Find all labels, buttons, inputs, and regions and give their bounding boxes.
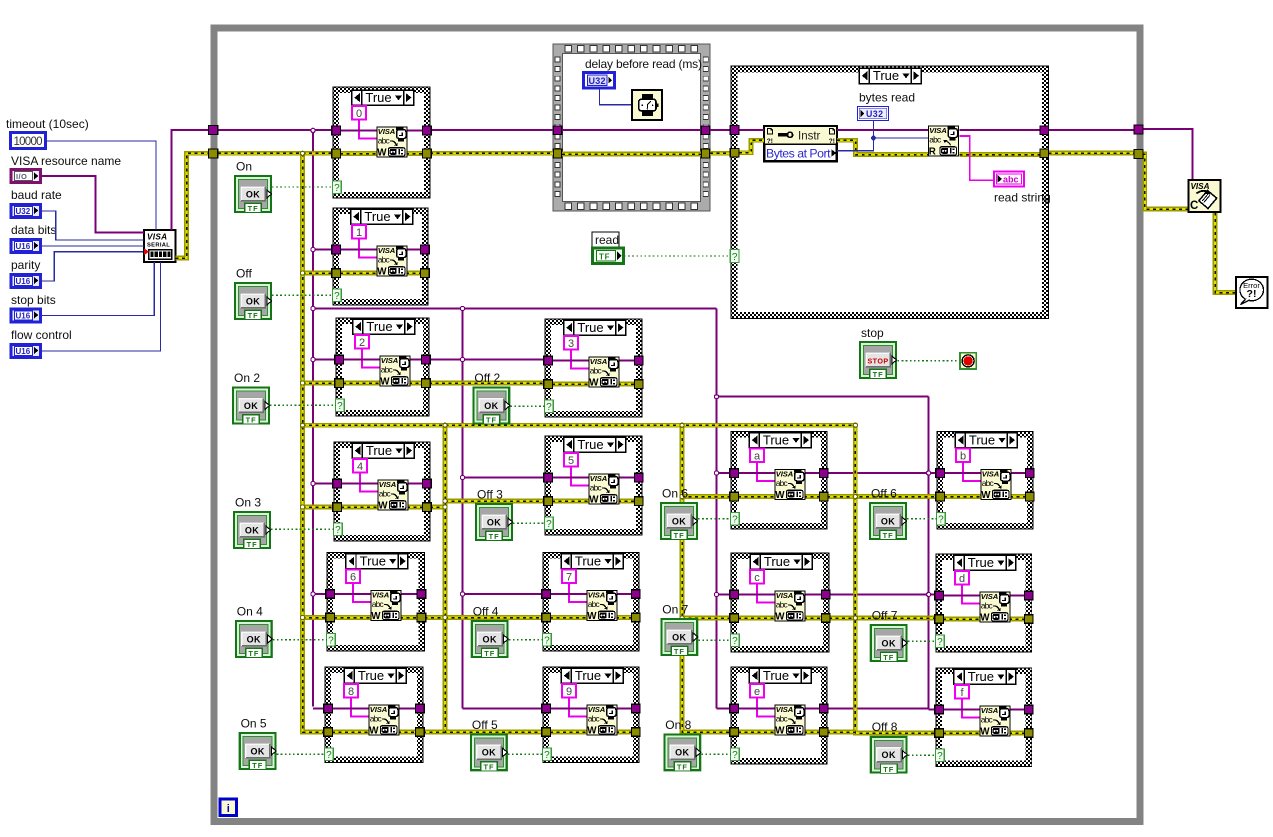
VISA Write icon (case "3") [589, 357, 619, 389]
VISA Configure Serial Port node [144, 230, 176, 262]
wire: VISA into property node [739, 129, 764, 131]
wire: error into VISA Write (case "a") [738, 494, 776, 499]
case selector label "True" [346, 554, 408, 569]
tunnel: case "e" left VISA [730, 704, 739, 713]
junction: VISA wire [460, 306, 464, 310]
junction: VISA wire [460, 357, 464, 361]
VISA Write icon (case "8") [369, 705, 399, 737]
tunnel: case "8" left error [324, 728, 333, 737]
case selector terminal ? ("0") [333, 181, 342, 194]
tunnel: loop left VISA [209, 126, 218, 135]
wire: On 7 to case selector [698, 639, 731, 641]
wire: error main through sequence [562, 152, 701, 157]
wire: constant "7" to VISA Write [569, 584, 587, 603]
wire: Off 6 to case selector [907, 518, 937, 520]
wire: VISA through case "1" [340, 249, 421, 251]
junction: VISA wire [460, 475, 464, 479]
svg-text:On 4: On 4 [237, 605, 263, 619]
case selector terminal ? ("4") [334, 523, 343, 536]
boolean button On 6 [661, 503, 698, 540]
tunnel: read case left error [730, 149, 739, 158]
tunnel: case "1" right error [421, 269, 430, 278]
junction: error wire [443, 423, 447, 427]
svg-text:On 5: On 5 [241, 717, 267, 731]
wire: error branch to case 7 [445, 615, 543, 620]
wire: VISA branch to case c [717, 594, 732, 596]
wire: VISA main loop border to VISA Close [1144, 129, 1193, 180]
svg-text:6: 6 [350, 571, 356, 583]
wire: constant "5" to VISA Write [571, 467, 589, 486]
string constant "a" [750, 449, 764, 463]
svg-text:C: C [1190, 200, 1198, 212]
junction: VISA wire [311, 306, 315, 310]
svg-text:U16: U16 [16, 347, 31, 356]
indicator terminal: bytes read U32 [858, 107, 889, 121]
svg-text:?!: ?! [767, 138, 773, 145]
tunnel: case "b" right error [1026, 492, 1035, 501]
case structure "4" (col1 row4) [334, 442, 430, 541]
VISA Write icon (case "d") [980, 592, 1010, 624]
svg-text:?: ? [337, 401, 343, 412]
svg-text:?: ? [937, 637, 943, 648]
control terminal: parity U16 [11, 275, 41, 288]
case selector terminal ? ("1") [333, 289, 342, 302]
svg-text:?: ? [938, 515, 944, 526]
wire: error into VISA Write (case "3") [552, 382, 590, 387]
svg-text:True: True [360, 554, 386, 569]
svg-text:?: ? [732, 252, 738, 263]
wire: error out of VISA Write (case "d") [1009, 617, 1025, 622]
while loop condition terminal [960, 353, 976, 369]
case structure "True" (read case) [731, 66, 1049, 319]
svg-text:On 2: On 2 [234, 371, 260, 385]
tunnel: case "2" left VISA [335, 355, 344, 364]
case structure "9" (col2 row6) [543, 667, 639, 763]
svg-text:VISA: VISA [147, 233, 167, 242]
wire: VISA through case "8" [332, 708, 416, 710]
string constant "5" [564, 453, 578, 467]
tunnel: case "6" left VISA [326, 590, 335, 599]
tunnel: case "4" right VISA [423, 479, 432, 488]
wire: error case a out to case b [827, 494, 937, 499]
wire: error out of VISA Write (case "a") [804, 494, 820, 499]
VISA Write icon (case "a") [775, 470, 805, 502]
wire: VISA branch to case 4 [313, 483, 334, 485]
tunnel: case "d" left VISA [935, 591, 944, 600]
case structure "8" (col1 row6) [325, 667, 423, 763]
svg-text:abc: abc [1003, 175, 1019, 185]
wire: VISA branch to case 8 [313, 708, 325, 710]
boolean terminal: read TF [593, 248, 624, 264]
case selector label "True" [561, 554, 623, 569]
wire: timeout to VISA serial (top) [46, 141, 156, 230]
svg-text:0: 0 [356, 108, 362, 120]
wire: error case 8 out to col2 vertical [423, 730, 445, 735]
VISA Write icon (case "0") [377, 127, 407, 159]
wire: VISA cross branch to col4 [717, 396, 929, 398]
wire: VISA through case "a" [738, 472, 820, 474]
svg-text:?: ? [544, 750, 550, 761]
wire: constant "8" to VISA Write [351, 698, 369, 717]
control terminal: baud rate U32 [11, 205, 41, 218]
svg-text:U32: U32 [866, 109, 883, 119]
wire: error case e out to col4 vertical [827, 730, 855, 735]
tunnel: case "1" left VISA [332, 245, 341, 254]
tunnel: case "a" right error [820, 492, 829, 501]
wire: read string data [960, 136, 995, 180]
wire: constant "6" to VISA Write [353, 584, 371, 603]
boolean button Off 5 [471, 735, 508, 772]
wire: error into VISA Write (case "d") [943, 617, 981, 622]
wire: VISA case 2 out to case 3 [429, 359, 545, 361]
wire: constant "c" to VISA Write [757, 584, 775, 603]
wire: error out of VISA Write (case "f") [1009, 731, 1025, 736]
wire: error out of VISA Write (case "c") [804, 616, 822, 621]
wire: error out of VISA Write (case "3") [618, 382, 635, 387]
boolean button On 8 [664, 735, 701, 772]
svg-text:5: 5 [568, 455, 574, 467]
svg-text:U16: U16 [16, 242, 31, 251]
svg-text:?: ? [334, 183, 340, 194]
tunnel: case "f" right error [1024, 729, 1033, 738]
read case selector terminal ? [730, 250, 739, 264]
case selector terminal ? ("b") [937, 513, 946, 526]
tunnel: loop right VISA [1134, 125, 1143, 134]
junction: error wire [300, 423, 304, 427]
boolean button On 4 [236, 621, 272, 658]
wire: On 8 to case selector [701, 753, 731, 755]
case structure "7" (col2 row5) [543, 553, 639, 652]
tunnel: case "4" left error [333, 503, 342, 512]
junction: error wire [443, 615, 447, 619]
string constant "9" [562, 684, 576, 698]
svg-text:On 7: On 7 [662, 603, 688, 617]
string constant "6" [346, 570, 360, 584]
svg-text:Off 8: Off 8 [872, 720, 898, 734]
junction: VISA wire [927, 471, 931, 475]
tunnel: case "9" right VISA [632, 704, 641, 713]
case selector terminal ? ("c") [731, 634, 740, 647]
svg-text:7: 7 [566, 571, 572, 583]
boolean button Off 7 [871, 625, 908, 662]
wire: constant "b" to VISA Write [963, 463, 981, 482]
tunnel: case "e" right VISA [820, 704, 829, 713]
wire: error VISA Read to tunnel [960, 152, 1041, 157]
wire: On 5 to case selector [277, 753, 325, 755]
tunnel: case "c" right error [822, 614, 831, 623]
wire: constant "0" to VISA Write [359, 120, 377, 139]
wire: constant "1" to VISA Write [359, 239, 377, 258]
wire: error branch to case c [682, 616, 731, 621]
wire: VISA branch to case 2 [313, 359, 336, 361]
VISA Write icon (case "e") [775, 705, 805, 737]
wire: error into VISA Write (case "e") [738, 730, 776, 735]
svg-text:?: ? [544, 636, 550, 647]
svg-text:d: d [959, 573, 965, 585]
svg-text:True: True [968, 669, 994, 684]
svg-text:Off 4: Off 4 [473, 605, 499, 619]
wire: data bits to VISA serial [41, 245, 145, 247]
junction: VISA wire [311, 357, 315, 361]
string constant "2" [355, 335, 369, 349]
boolean button Off 6 [870, 503, 907, 540]
case selector label "True" [561, 668, 623, 683]
svg-text:Off: Off [236, 267, 252, 281]
wire: error into VISA Write (case "6") [334, 615, 372, 620]
wire: VISA through case "7" [550, 593, 632, 595]
svg-text:VISA: VISA [1191, 182, 1210, 191]
svg-text:True: True [366, 319, 392, 334]
tunnel: case "d" left error [935, 615, 944, 624]
svg-text:True: True [364, 209, 390, 224]
case selector terminal ? ("8") [325, 748, 334, 761]
svg-text:U16: U16 [16, 277, 31, 286]
svg-text:True: True [577, 320, 603, 335]
VISA Write icon (case "c") [775, 591, 805, 623]
junction: VISA wire [714, 592, 718, 596]
tunnel: case "d" right VISA [1024, 591, 1033, 600]
tunnel: case "b" right VISA [1026, 469, 1035, 478]
wire: error main read case to loop border [1049, 151, 1135, 156]
case selector label "True" [750, 554, 812, 569]
junction: error wire [300, 381, 304, 385]
wire: error into VISA Write (case "2") [343, 381, 381, 386]
svg-text:4: 4 [357, 461, 363, 473]
wire: error case 4 out to col2 vertical [430, 505, 445, 510]
error out icon [1236, 277, 1268, 308]
string constant "d" [955, 571, 969, 585]
wire: error case c out to case d [829, 616, 936, 621]
case structure "f" (col4 row6) [936, 668, 1032, 767]
string constant "0" [352, 106, 366, 120]
wire: error branch to case 5 [445, 499, 545, 504]
string constant "f" [955, 685, 969, 699]
wire: flow control to VISA serial (bottom) [41, 262, 161, 351]
svg-text:a: a [754, 450, 761, 462]
wire: VISA through case "3" [552, 360, 635, 362]
svg-text:Instr: Instr [798, 131, 821, 143]
wire: error property node to VISA Read [837, 140, 928, 154]
svg-text:?: ? [732, 636, 738, 647]
svg-text:timeout (10sec): timeout (10sec) [6, 117, 89, 131]
case selector terminal ? ("6") [327, 634, 336, 647]
svg-text:3: 3 [568, 338, 574, 350]
case structure "6" (col1 row5) [327, 553, 425, 652]
tunnel: read case right VISA [1040, 126, 1049, 135]
wire: constant "a" to VISA Write [757, 463, 775, 482]
junction: error wire [443, 505, 447, 509]
wire: error vertical col4 [855, 425, 936, 733]
wire: VISA through case "c" [738, 594, 822, 596]
wire: VISA property node to VISA Read [837, 129, 928, 131]
svg-text:True: True [358, 668, 384, 683]
boolean button On 5 [240, 733, 277, 770]
tunnel: case "a" left error [730, 492, 739, 501]
tunnel: case "5" right error [635, 497, 644, 506]
junction: VISA wire [311, 481, 315, 485]
wire: error branch to case 2 [303, 381, 337, 386]
svg-text:Off 7: Off 7 [872, 609, 898, 623]
svg-text:True: True [575, 554, 601, 569]
tunnel: case "3" left error [544, 380, 553, 389]
case selector label "True" [352, 443, 414, 458]
svg-text:?!: ?! [1247, 288, 1257, 300]
tunnel: case "f" right VISA [1024, 705, 1033, 714]
control terminal: data bits U16 [11, 240, 41, 253]
svg-text:?: ? [546, 402, 552, 413]
wire: error main sequence to read case [710, 151, 731, 156]
svg-text:?!: ?! [829, 138, 835, 145]
wire: error into VISA Write (case "5") [552, 499, 590, 504]
wire: VISA through case "b" [944, 472, 1026, 474]
case selector terminal ? ("f") [936, 749, 945, 762]
tunnel: case "0" left error [332, 149, 341, 158]
tunnel: case "6" right VISA [417, 590, 426, 599]
tunnel: case "9" left VISA [542, 704, 551, 713]
case selector terminal ? ("5") [545, 517, 554, 530]
VISA resource name I/O control terminal [11, 170, 41, 183]
tunnel: case "2" right VISA [422, 355, 431, 364]
wire: error VISA Close to error out [1215, 213, 1236, 293]
svg-text:True: True [366, 443, 392, 458]
tunnel: case "1" left error [332, 269, 341, 278]
svg-text:On 3: On 3 [235, 496, 261, 510]
wire: error case 2 out to case 3 [429, 381, 545, 386]
control terminal: flow control U16 [11, 345, 41, 358]
string constant "1" [352, 225, 366, 239]
case structure "0" (col1 row1) [333, 87, 430, 198]
junction: error wire [300, 615, 304, 619]
svg-text:?: ? [328, 636, 334, 647]
junction: error wire [680, 616, 684, 620]
tunnel: case "9" right error [632, 728, 641, 737]
svg-text:True: True [763, 433, 789, 448]
junction: error wire [680, 494, 684, 498]
case structure "b" (col4 row4) [937, 432, 1033, 530]
junction: error wire [853, 423, 857, 427]
case structure "d" (col4 row5) [936, 554, 1032, 652]
wire: VISA through case "d" [943, 595, 1025, 597]
wire: Off 5 to case selector [508, 753, 543, 755]
wire: VISA main case 0 to sequence [430, 129, 553, 131]
wire: error branch to case a [682, 494, 731, 499]
svg-text:SERIAL: SERIAL [147, 243, 170, 249]
svg-text:U16: U16 [16, 312, 31, 321]
wire: VISA vertical col1 [312, 130, 314, 706]
svg-text:TF: TF [599, 253, 610, 262]
junction: VISA wire [714, 471, 718, 475]
wire: VISA through case "9" [550, 708, 632, 710]
VISA Write icon (case "4") [378, 480, 408, 512]
boolean button On [235, 176, 272, 213]
VISA Write icon (case "2") [380, 356, 410, 388]
tunnel: case "c" left VISA [730, 590, 739, 599]
string constant "e" [750, 684, 764, 698]
svg-text:2: 2 [359, 337, 365, 349]
svg-text:?: ? [326, 750, 332, 761]
wire: error into VISA Write (case "8") [332, 730, 370, 735]
svg-text:stop bits: stop bits [11, 293, 56, 307]
tunnel: case "5" right VISA [635, 473, 644, 482]
wire: VISA case e out to col4 vertical [827, 708, 929, 710]
wire: Off 4 to case selector [509, 639, 543, 641]
wire: error into VISA Write (case "b") [944, 494, 982, 499]
junction: error wire [443, 499, 447, 503]
case selector label "True" [749, 668, 811, 683]
case structure "c" (col3 row5) [731, 553, 829, 652]
Wait (ms) function icon [632, 90, 662, 120]
wire: error main into case 0 [218, 151, 333, 156]
wire: Off 3 to case selector [513, 522, 545, 524]
tunnel: case "2" right error [422, 379, 431, 388]
svg-text:True: True [873, 68, 899, 83]
junction: byte count wire [871, 136, 876, 141]
svg-text:1: 1 [356, 227, 362, 239]
svg-text:True: True [969, 433, 995, 448]
wire: On 6 to case selector [698, 518, 731, 520]
svg-text:?: ? [335, 525, 341, 536]
wire: error into VISA Write (case "0") [340, 151, 378, 156]
wire: VISA through case "e" [738, 708, 820, 710]
wire: error into VISA Write (case "1") [340, 271, 378, 276]
svg-text:On 6: On 6 [662, 487, 688, 501]
tunnel: case "8" right error [416, 728, 425, 737]
boolean button On 7 [661, 619, 698, 656]
wire: error vertical col3 [682, 425, 731, 732]
wire: error vertical col1 [303, 153, 326, 732]
wire: VISA Read out to tunnel [960, 129, 1041, 131]
wire: error into VISA Write (case "f") [943, 731, 981, 736]
wire: VISA branch to case a [717, 472, 732, 474]
wire: error into VISA Write (case "c") [738, 616, 776, 621]
svg-text:baud rate: baud rate [11, 188, 62, 202]
svg-text:stop: stop [861, 326, 884, 340]
boolean button stop [860, 342, 897, 379]
svg-text:On 8: On 8 [665, 718, 691, 732]
tunnel: case "0" right VISA [423, 126, 432, 135]
control terminal: stop bits U16 [11, 309, 41, 322]
wire: On 3 to case selector [271, 528, 334, 530]
svg-text:?: ? [937, 751, 943, 762]
case selector label "True" [564, 437, 626, 452]
wire: error out of VISA Write (case "0") [406, 151, 423, 156]
case structure "2" (col1 row3) [336, 318, 429, 416]
wire: VISA main read case to loop border [1049, 129, 1135, 131]
case selector label "True" [749, 433, 811, 448]
VISA Read icon [929, 126, 959, 158]
wire: On 2 to case selector [270, 404, 336, 406]
case selector label "True" [955, 433, 1017, 448]
wire: constant "4" to VISA Write [360, 473, 378, 492]
tunnel: case "f" left error [935, 729, 944, 738]
case selector terminal ? ("2") [336, 399, 345, 412]
boolean button On 2 [233, 388, 270, 425]
svg-text:i: i [227, 803, 230, 815]
numeric constant 10000 [11, 133, 46, 149]
svg-text:Off 6: Off 6 [871, 487, 897, 501]
svg-text:Bytes at Port: Bytes at Port [766, 146, 831, 160]
tunnel: case "1" right VISA [421, 245, 430, 254]
tunnel: case "9" left error [542, 728, 551, 737]
svg-text:U32: U32 [589, 76, 606, 86]
svg-text:True: True [764, 554, 790, 569]
svg-text:8: 8 [348, 686, 354, 698]
tunnel: case "5" left error [544, 497, 553, 506]
tunnel: loop left error [209, 149, 218, 158]
svg-text:c: c [754, 572, 760, 584]
svg-text:Off 3: Off 3 [477, 488, 503, 502]
wire: Off 8 to case selector [908, 754, 936, 756]
